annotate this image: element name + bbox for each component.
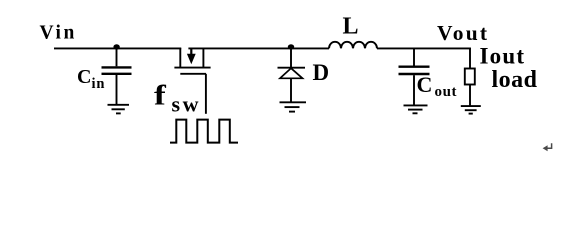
gate wire down <box>205 74 207 114</box>
drain stub <box>202 48 204 68</box>
svg-text:C: C <box>417 72 433 97</box>
node Vout label <box>437 21 489 45</box>
label C_out <box>417 72 458 100</box>
channel bar <box>174 67 210 69</box>
ground (at Cout) <box>404 105 428 113</box>
transistor: switch MOSFET <box>174 48 329 114</box>
svg-text:L: L <box>343 14 359 40</box>
node: junction dot at Cin <box>113 44 119 49</box>
body arrow stem <box>190 48 192 55</box>
node: junction dot at diode <box>288 44 294 49</box>
drain-side rail resumes <box>188 47 329 49</box>
svg-text:Vin: Vin <box>40 23 77 44</box>
svg-text:f: f <box>154 79 167 111</box>
resistor: load <box>465 48 475 106</box>
svg-text:Iout: Iout <box>480 43 526 68</box>
svg-text:in: in <box>92 76 106 92</box>
wire: input rail from Vin to transistor source <box>54 47 181 49</box>
svg-text:Vout: Vout <box>437 21 489 45</box>
ground (at diode) <box>280 102 307 111</box>
wire: output rail from inductor to load <box>377 47 471 49</box>
label C_in <box>77 66 105 92</box>
diode D <box>278 47 306 102</box>
node Vin label <box>40 23 77 44</box>
inductor L coil <box>329 42 377 49</box>
capacitor C_in <box>102 47 132 105</box>
ground (at load) <box>461 106 481 114</box>
body arrow head <box>187 54 196 65</box>
label load <box>492 67 538 93</box>
svg-text:D: D <box>313 60 330 85</box>
ground (at Cin) <box>108 105 130 114</box>
svg-text:load: load <box>492 67 538 93</box>
svg-text:sw: sw <box>172 92 202 117</box>
source stub <box>179 48 181 68</box>
label L <box>343 14 359 40</box>
svg-text:out: out <box>435 84 458 100</box>
capacitor C_out <box>399 49 430 105</box>
gate drive square wave <box>170 120 238 143</box>
gate bar <box>180 73 206 75</box>
label f_sw <box>154 79 201 117</box>
svg-text:C: C <box>77 66 91 88</box>
label D <box>313 60 330 85</box>
return mark (paragraph return artifact) <box>543 143 552 151</box>
label Iout <box>480 43 526 68</box>
